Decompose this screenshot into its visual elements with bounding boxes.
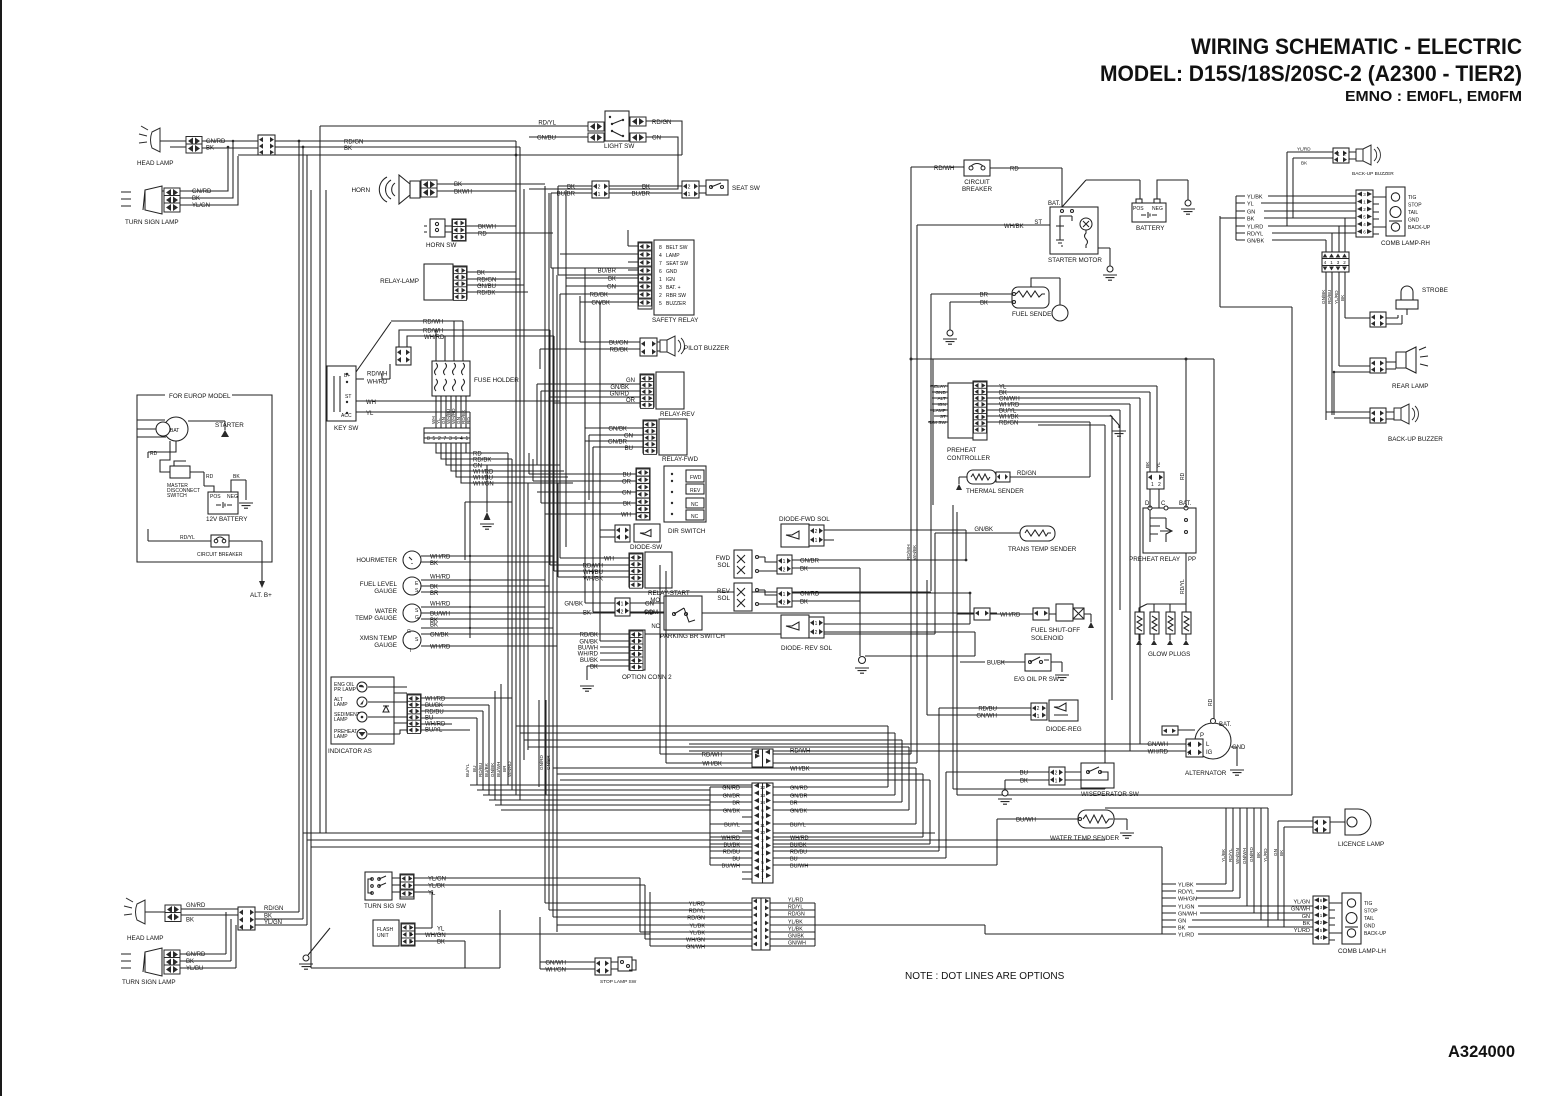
- xmsn temp gauge: [360, 629, 421, 654]
- svg-text:ALTERNATOR: ALTERNATOR: [1185, 770, 1227, 777]
- svg-text:BELT SW: BELT SW: [666, 245, 688, 251]
- connector 1/2 near key sw: [396, 347, 411, 365]
- svg-text:12V BATTERY: 12V BATTERY: [206, 516, 248, 523]
- svg-text:BU/BK: BU/BK: [425, 703, 443, 709]
- svg-text:RD/GN: RD/GN: [264, 906, 283, 912]
- svg-text:E/G OIL PR SW: E/G OIL PR SW: [1014, 676, 1059, 683]
- svg-text:BU/BK: BU/BK: [987, 661, 1005, 667]
- diode-rev sol: [781, 615, 833, 652]
- svg-text:BR: BR: [732, 801, 740, 807]
- svg-text:GN/BK: GN/BK: [430, 633, 449, 639]
- svg-text:GN/WH: GN/WH: [1178, 912, 1197, 918]
- svg-text:BU/YL: BU/YL: [724, 823, 740, 829]
- svg-text:10: 10: [760, 830, 766, 835]
- svg-text:RD/YL: RD/YL: [1178, 890, 1194, 896]
- svg-text:WH/BK: WH/BK: [790, 767, 810, 773]
- svg-text:BU: BU: [1020, 771, 1028, 777]
- starter motor: [1034, 201, 1102, 264]
- svg-text:8: 8: [427, 436, 430, 442]
- svg-text:1: 1: [815, 621, 818, 627]
- svg-text:BK: BK: [623, 502, 631, 508]
- svg-text:WH/GN: WH/GN: [1235, 848, 1240, 864]
- wires starter to switch: [148, 441, 176, 472]
- svg-text:BU/YL: BU/YL: [790, 823, 806, 829]
- svg-text:YL: YL: [1247, 202, 1254, 208]
- svg-text:YL: YL: [437, 927, 445, 933]
- svg-text:GN/BK: GN/BK: [610, 385, 629, 391]
- connector strip horizontal: [424, 428, 470, 443]
- svg-text:TEMP GAUGE: TEMP GAUGE: [355, 615, 397, 622]
- pilot buzzer horn: [660, 336, 729, 356]
- svg-text:LICENCE LAMP: LICENCE LAMP: [1338, 841, 1384, 848]
- svg-text:YL/RD: YL/RD: [1247, 225, 1263, 231]
- svg-text:NEG: NEG: [227, 494, 238, 500]
- svg-text:YL/BU: YL/BU: [186, 966, 203, 972]
- svg-text:RD/GN: RD/GN: [687, 916, 705, 922]
- svg-text:GN/RD: GN/RD: [800, 592, 820, 598]
- diagonal ground wire: [308, 928, 465, 968]
- svg-text:TURN SIGN LAMP: TURN SIGN LAMP: [122, 979, 176, 986]
- svg-text:BK: BK: [980, 301, 988, 307]
- svg-text:RD/WH: RD/WH: [423, 320, 443, 326]
- svg-text:ST: ST: [345, 394, 351, 400]
- svg-text:GND: GND: [935, 390, 946, 396]
- connector 1|2 above relay: [1147, 472, 1164, 489]
- svg-text:GN/WH: GN/WH: [976, 714, 997, 720]
- svg-text:RD/WH: RD/WH: [423, 329, 443, 335]
- svg-text:GN: GN: [645, 602, 654, 608]
- svg-text:GN: GN: [607, 285, 616, 291]
- svg-text:BK: BK: [1279, 849, 1284, 856]
- relay-lamp connector col: [453, 266, 467, 300]
- svg-text:YL/RD: YL/RD: [1178, 933, 1194, 939]
- circuit breaker (europ): [197, 535, 243, 558]
- comb lamp LH connector: [1313, 896, 1329, 944]
- svg-text:ST: ST: [940, 414, 946, 420]
- svg-text:BK: BK: [583, 611, 591, 617]
- svg-text:YL/GN: YL/GN: [1293, 900, 1310, 906]
- svg-text:DIODE- REV SOL: DIODE- REV SOL: [781, 645, 833, 652]
- ground option conn: [580, 686, 594, 691]
- svg-text:RD/YL: RD/YL: [788, 905, 803, 911]
- svg-text:YL/RD: YL/RD: [1263, 848, 1268, 862]
- svg-text:12: 12: [760, 785, 766, 790]
- svg-text:YL/RD: YL/RD: [788, 898, 804, 904]
- svg-text:RD/BK: RD/BK: [477, 291, 495, 297]
- svg-text:1: 1: [815, 538, 818, 544]
- svg-text:BU/BK: BU/BK: [580, 658, 598, 664]
- svg-text:BU: BU: [623, 473, 631, 479]
- svg-text:YL/BK: YL/BK: [788, 920, 803, 926]
- svg-text:BU/WH: BU/WH: [790, 864, 808, 870]
- svg-text:1: 1: [1151, 482, 1154, 488]
- preheat relay: [1129, 501, 1196, 563]
- safety relay connector col: [638, 242, 652, 309]
- svg-text:INDICATOR AS: INDICATOR AS: [328, 748, 372, 755]
- solenoid wiring: [759, 557, 777, 604]
- svg-text:BAT.: BAT.: [1219, 722, 1232, 728]
- svg-text:WH/RD: WH/RD: [578, 652, 599, 658]
- svg-text:GN: GN: [1247, 210, 1255, 216]
- comb lamp LH box: [1338, 893, 1386, 955]
- svg-text:YL/RD: YL/RD: [1294, 928, 1310, 934]
- svg-text:STARTER MOTOR: STARTER MOTOR: [1048, 257, 1102, 264]
- svg-text:RD/YL: RD/YL: [538, 121, 556, 127]
- svg-text:BUZZER: BUZZER: [666, 301, 686, 307]
- svg-text:FUEL SENDER: FUEL SENDER: [1012, 311, 1056, 318]
- svg-text:WH/GN: WH/GN: [1178, 897, 1197, 903]
- alternator wires: [689, 744, 1186, 751]
- svg-text:UNIT: UNIT: [377, 933, 389, 939]
- svg-text:TURN SIG SW: TURN SIG SW: [364, 903, 406, 910]
- svg-text:FWD: FWD: [690, 475, 702, 481]
- svg-text:RD/BK: RD/BK: [590, 293, 608, 299]
- seat switch: [706, 180, 760, 195]
- seat sw connector B: [682, 181, 699, 198]
- svg-text:CIRCUIT BREAKER: CIRCUIT BREAKER: [197, 552, 243, 558]
- key sw B+ diagonal to rd/wh line: [356, 322, 391, 372]
- svg-text:RD/BU: RD/BU: [478, 763, 483, 777]
- svg-text:RELAY-REV: RELAY-REV: [660, 411, 695, 418]
- stair verticals up from 14pin rows: [888, 726, 930, 844]
- svg-text:GN/RD: GN/RD: [539, 755, 544, 770]
- svg-text:WH/GN: WH/GN: [425, 933, 446, 939]
- svg-text:GN/RD: GN/RD: [186, 903, 206, 909]
- svg-text:3: 3: [449, 436, 452, 442]
- svg-text:YL: YL: [428, 891, 436, 897]
- svg-text:BR: BR: [790, 801, 798, 807]
- svg-text:YL/RD: YL/RD: [1297, 147, 1311, 152]
- svg-text:WH/RD: WH/RD: [425, 697, 446, 703]
- fwd sol connector: [777, 555, 792, 574]
- svg-text:SOL: SOL: [717, 562, 730, 569]
- svg-text:RD/BU: RD/BU: [790, 850, 807, 856]
- master disconnect switch: [167, 461, 200, 499]
- svg-text:LAMP: LAMP: [666, 253, 680, 259]
- svg-text:1: 1: [783, 592, 786, 598]
- long wires from block to right bus: [238, 141, 682, 155]
- svg-text:YL: YL: [1156, 462, 1162, 468]
- svg-text:RD: RD: [1208, 698, 1214, 706]
- svg-text:GN/WH: GN/WH: [545, 961, 566, 967]
- svg-text:RD/YL: RD/YL: [689, 909, 705, 915]
- preheat controller right wires: [987, 386, 1157, 422]
- svg-text:2: 2: [815, 630, 818, 636]
- svg-text:GN: GN: [652, 136, 661, 142]
- 7pin left rows: [545, 878, 752, 946]
- svg-text:BU/WH: BU/WH: [722, 864, 740, 870]
- svg-text:GN/RD: GN/RD: [206, 139, 226, 145]
- svg-text:GN/BK: GN/BK: [1321, 289, 1326, 304]
- svg-text:WATER TEMP SENDER: WATER TEMP SENDER: [1050, 835, 1119, 842]
- svg-text:GND: GND: [1232, 745, 1246, 751]
- svg-text:WH: WH: [604, 557, 614, 563]
- svg-text:COMB LAMP-LH: COMB LAMP-LH: [1338, 948, 1386, 955]
- main bus y359: [911, 359, 1214, 719]
- svg-text:GND: GND: [1408, 218, 1420, 224]
- svg-text:BK: BK: [1020, 779, 1028, 785]
- svg-text:WH/RD: WH/RD: [1148, 750, 1169, 756]
- LH feed columns from above: [1105, 808, 1268, 927]
- svg-text:LAMP: LAMP: [334, 717, 348, 723]
- svg-text:RD/WH: RD/WH: [934, 166, 954, 172]
- svg-text:WH/RD: WH/RD: [790, 836, 809, 842]
- svg-text:1: 1: [783, 559, 786, 565]
- svg-text:1: 1: [1037, 714, 1040, 720]
- svg-text:B+: B+: [344, 373, 350, 379]
- svg-text:5: 5: [433, 436, 436, 442]
- svg-text:SAFETY RELAY: SAFETY RELAY: [652, 317, 699, 324]
- turn sign lamp (lower): [121, 948, 176, 986]
- svg-text:FUEL LEVEL: FUEL LEVEL: [360, 581, 398, 588]
- svg-text:SOL: SOL: [717, 595, 730, 602]
- svg-text:BU/WH: BU/WH: [430, 612, 450, 618]
- svg-text:BKWH: BKWH: [478, 225, 496, 231]
- svg-text:DIODE-REG: DIODE-REG: [1046, 726, 1082, 733]
- wires below 4-pin: [1326, 272, 1345, 420]
- connector block lower: [238, 907, 255, 930]
- svg-text:RD/GN: RD/GN: [788, 912, 805, 918]
- svg-text:YL/GN: YL/GN: [428, 877, 446, 883]
- svg-text:7: 7: [444, 436, 447, 442]
- wires turn lamp up to block: [162, 141, 238, 205]
- svg-text:RD/GN: RD/GN: [999, 421, 1018, 427]
- center bundle verticals: [508, 141, 528, 800]
- svg-text:1: 1: [1055, 779, 1058, 785]
- svg-text:BAT.: BAT.: [1048, 201, 1061, 207]
- rev sol: [717, 583, 758, 611]
- svg-text:POS: POS: [1133, 206, 1144, 212]
- 14pin right rows: [773, 787, 997, 865]
- 12V battery (europ): [206, 492, 248, 523]
- svg-text:SEAT SW: SEAT SW: [732, 185, 760, 192]
- svg-text:WH/RD: WH/RD: [430, 555, 451, 561]
- svg-text:14: 14: [760, 800, 766, 805]
- svg-text:RD/BU: RD/BU: [978, 707, 997, 713]
- svg-text:WH/RD: WH/RD: [1000, 613, 1021, 619]
- svg-text:BK: BK: [186, 959, 194, 965]
- svg-text:BK: BK: [1340, 294, 1345, 301]
- svg-text:SEAT SW: SEAT SW: [666, 261, 688, 267]
- svg-text:BK: BK: [642, 185, 650, 191]
- svg-text:WH/GN: WH/GN: [545, 968, 566, 974]
- svg-text:BK: BK: [233, 474, 240, 480]
- svg-text:OPTION CONN 2: OPTION CONN 2: [622, 674, 672, 681]
- svg-text:BAT: BAT: [170, 428, 179, 434]
- light sw return wires: [529, 121, 682, 189]
- svg-text:GN/WH: GN/WH: [1291, 907, 1310, 913]
- svg-text:RD: RD: [1180, 472, 1186, 480]
- svg-text:BU/BK: BU/BK: [723, 843, 740, 849]
- svg-text:BU/BK: BU/BK: [484, 762, 489, 777]
- indicator connector col: [407, 694, 421, 734]
- svg-text:RD/BU: RD/BU: [1327, 290, 1332, 304]
- svg-text:LIGHT SW: LIGHT SW: [604, 143, 634, 150]
- wires key sw rows to connector and up to rows: [382, 330, 554, 571]
- vertical pair RD/WH WH/BK long: [911, 167, 917, 763]
- starter ST thick wire: [1028, 224, 1050, 226]
- svg-text:WATER: WATER: [375, 608, 397, 615]
- svg-text:RD: RD: [645, 611, 654, 617]
- svg-text:TIG: TIG: [1408, 195, 1416, 201]
- svg-text:GN/BR: GN/BR: [608, 440, 628, 446]
- svg-text:LAMP: LAMP: [334, 702, 348, 708]
- svg-text:YL/BK: YL/BK: [1247, 195, 1263, 201]
- svg-text:GN/BK: GN/BK: [608, 427, 627, 433]
- svg-text:WH/RD: WH/RD: [507, 761, 512, 777]
- svg-text:RBR SW: RBR SW: [666, 293, 686, 299]
- svg-text:I: I: [410, 648, 411, 654]
- svg-text:2: 2: [1158, 482, 1161, 488]
- svg-text:GN: GN: [1178, 919, 1186, 925]
- svg-text:RD/GN: RD/GN: [477, 278, 496, 284]
- svg-text:BK: BK: [1247, 217, 1255, 223]
- svg-text:STARTER: STARTER: [215, 422, 244, 429]
- svg-text:FUEL SHUT-OFF: FUEL SHUT-OFF: [1031, 627, 1080, 634]
- svg-text:BU/BR: BU/BR: [598, 269, 617, 275]
- water temp gauge: [355, 604, 421, 622]
- svg-text:L: L: [409, 925, 412, 931]
- svg-text:BACK-UP BUZZER: BACK-UP BUZZER: [1388, 436, 1443, 443]
- light sw connectors left: [588, 122, 604, 131]
- svg-text:RELAY: RELAY: [931, 384, 947, 390]
- svg-text:2: 2: [621, 610, 624, 616]
- rd/wh row from B+: [391, 320, 463, 322]
- circuit breaker: [962, 160, 993, 193]
- svg-text:WH/RD: WH/RD: [721, 836, 740, 842]
- svg-text:HEAD LAMP: HEAD LAMP: [137, 160, 173, 167]
- fuse verticals to strip: [436, 396, 466, 428]
- svg-text:RD: RD: [150, 451, 158, 457]
- svg-text:RD/WH: RD/WH: [790, 749, 810, 755]
- comb lamp RH connector col: [1356, 190, 1373, 237]
- svg-text:BAT. +: BAT. +: [666, 285, 681, 291]
- svg-text:GN/BK: GN/BK: [788, 934, 805, 940]
- svg-text:1: 1: [408, 876, 411, 882]
- svg-text:4: 4: [460, 436, 463, 442]
- svg-text:GAUGE: GAUGE: [374, 588, 397, 595]
- svg-text:BACK-UP BUZZER: BACK-UP BUZZER: [1352, 171, 1394, 177]
- lower section box: [953, 505, 1292, 795]
- rd/wh wh/bk pair connector: [752, 749, 773, 767]
- svg-text:THERMAL SENDER: THERMAL SENDER: [966, 488, 1024, 495]
- svg-text:GN/BK: GN/BK: [490, 762, 495, 777]
- turn sign lamp: [121, 186, 179, 226]
- svg-text:WH/RD: WH/RD: [367, 380, 388, 386]
- svg-text:GN/BR: GN/BR: [546, 755, 551, 770]
- svg-text:GN/WH: GN/WH: [788, 941, 806, 947]
- svg-text:13: 13: [760, 793, 766, 798]
- svg-text:GN/WH: GN/WH: [686, 945, 705, 951]
- svg-text:RD/YL: RD/YL: [1247, 232, 1263, 238]
- bottom harness bus lines: [303, 833, 1162, 847]
- svg-text:GN/BK: GN/BK: [790, 809, 807, 815]
- svg-text:RD/YL: RD/YL: [1180, 579, 1186, 594]
- svg-text:YL/BK: YL/BK: [689, 931, 705, 937]
- fuel level gauge: [360, 577, 421, 595]
- wires down from seat row to safety relay: [551, 186, 558, 275]
- section box corner + ground: [1038, 415, 1119, 560]
- svg-text:7: 7: [659, 261, 662, 267]
- svg-text:BR: BR: [980, 293, 989, 299]
- 7pin right rows: [770, 903, 815, 946]
- svg-text:BK: BK: [437, 940, 445, 946]
- svg-text:RD/GN: RD/GN: [344, 140, 363, 146]
- fuse top feeds: [436, 321, 463, 361]
- svg-text:GN/BU: GN/BU: [537, 136, 556, 142]
- ALT. B+ arrow: [250, 570, 272, 599]
- svg-text:1: 1: [621, 602, 624, 608]
- svg-text:FUSE HOLDER: FUSE HOLDER: [474, 377, 519, 384]
- svg-text:NOTE : DOT LINES ARE OPTIONS: NOTE : DOT LINES ARE OPTIONS: [905, 971, 1065, 982]
- svg-text:RD/BU: RD/BU: [723, 850, 740, 856]
- svg-text:YL/GN: YL/GN: [264, 920, 282, 926]
- starter BAT to battery: [1062, 180, 1140, 207]
- svg-text:BU/YL: BU/YL: [465, 763, 470, 777]
- svg-text:RD: RD: [478, 232, 487, 238]
- svg-text:YL/BK: YL/BK: [1178, 883, 1194, 889]
- rev sol connector: [777, 588, 792, 607]
- connector pair head lamp: [186, 137, 226, 154]
- svg-text:5: 5: [659, 301, 662, 307]
- svg-text:WH/GN: WH/GN: [473, 482, 494, 488]
- svg-text:IG: IG: [1206, 750, 1213, 756]
- svg-text:BK: BK: [1256, 851, 1261, 858]
- svg-text:2: 2: [783, 601, 786, 607]
- svg-text:YL/RD: YL/RD: [689, 902, 705, 908]
- svg-text:BU/WH: BU/WH: [496, 762, 501, 777]
- key sw outputs: [356, 379, 366, 412]
- ground with circle (solenoid common): [855, 657, 869, 674]
- alternator B/A connector: [1186, 739, 1203, 757]
- svg-text:IGN: IGN: [666, 277, 675, 283]
- svg-text:OR: OR: [622, 480, 632, 486]
- svg-text:BK: BK: [192, 196, 200, 202]
- LH bundle bracket: [1162, 884, 1176, 934]
- svg-text:G: G: [415, 615, 419, 621]
- svg-text:2: 2: [438, 436, 441, 442]
- svg-text:BK: BK: [1145, 461, 1151, 468]
- svg-text:GN/BR: GN/BR: [723, 794, 740, 800]
- svg-text:BU: BU: [732, 857, 740, 863]
- svg-text:BU/BK: BU/BK: [790, 843, 807, 849]
- svg-text:GN: GN: [1302, 914, 1310, 920]
- svg-text:BK: BK: [430, 561, 438, 567]
- svg-text:1: 1: [408, 884, 411, 890]
- svg-text:BK: BK: [430, 585, 438, 591]
- svg-text:BK: BK: [800, 600, 808, 606]
- interior harness box edges: [320, 126, 933, 833]
- svg-text:WH: WH: [621, 513, 631, 519]
- svg-text:RD: RD: [206, 474, 214, 480]
- svg-text:P: P: [1200, 733, 1204, 739]
- svg-text:REAR LAMP: REAR LAMP: [1392, 383, 1428, 390]
- battery neg to ground: [1157, 180, 1188, 200]
- svg-text:REV: REV: [690, 488, 701, 494]
- svg-text:TAIL: TAIL: [1364, 916, 1374, 922]
- svg-text:GN/RD: GN/RD: [790, 786, 808, 792]
- svg-text:BU: BU: [625, 446, 633, 452]
- svg-text:YL/BK: YL/BK: [788, 927, 803, 933]
- svg-text:YL/BK: YL/BK: [428, 884, 445, 890]
- comb lamp RH box: [1381, 187, 1430, 247]
- svg-text:6: 6: [455, 436, 458, 442]
- svg-text:BK: BK: [800, 567, 808, 573]
- europ wires top: [137, 420, 225, 437]
- svg-text:SOLENOID: SOLENOID: [1031, 635, 1064, 642]
- svg-text:1: 1: [466, 436, 469, 442]
- svg-text:PREHEAT: PREHEAT: [947, 447, 976, 454]
